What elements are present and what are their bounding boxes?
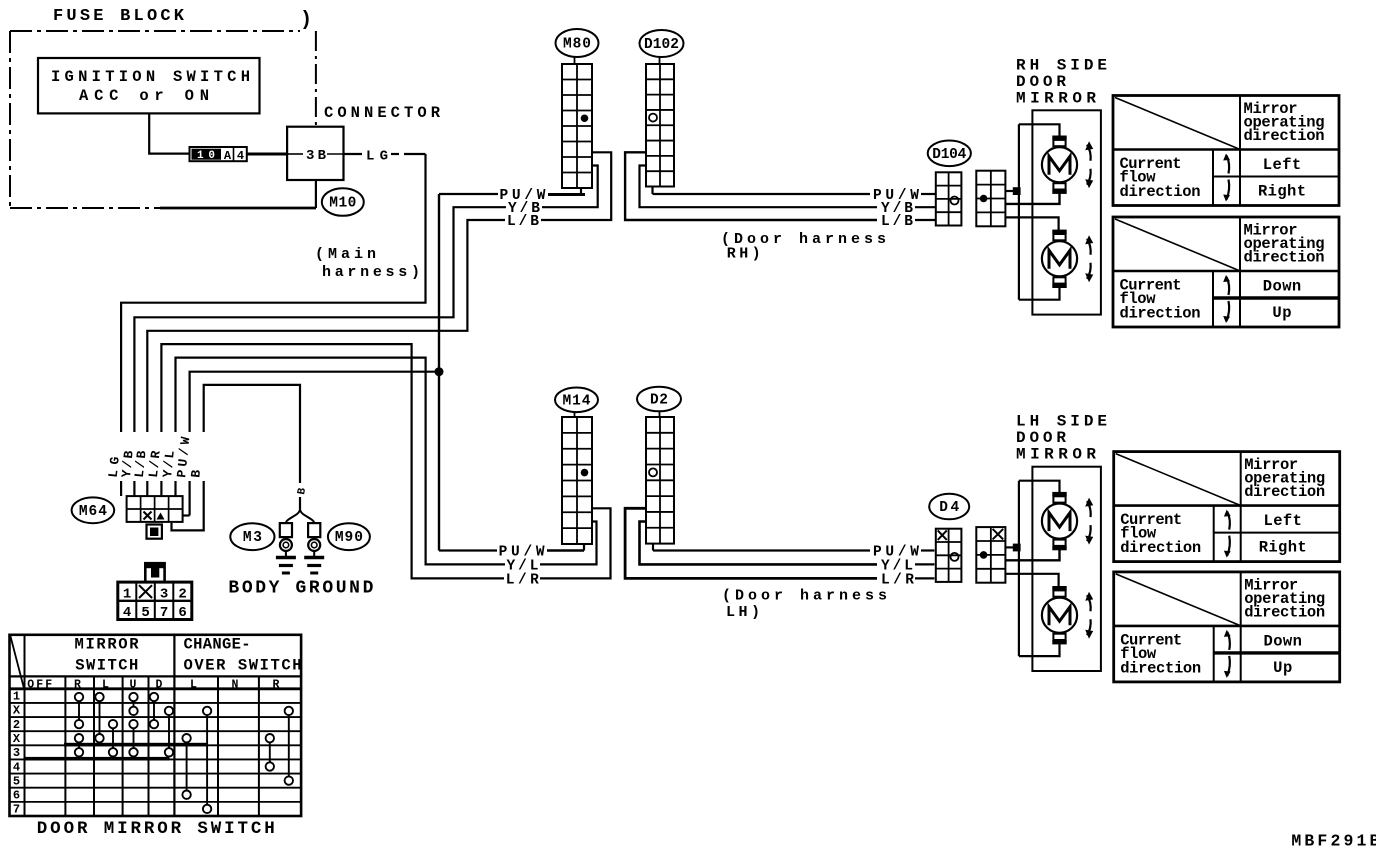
ignition switch box [38, 58, 260, 113]
table LH down-up [1114, 572, 1340, 682]
svg-text:BODY GROUND: BODY GROUND [228, 579, 373, 599]
wire fuse to connector [247, 153, 287, 156]
wire to junction [1005, 546, 1014, 548]
common rail wire [1018, 124, 1020, 299]
mirror assembly box [1032, 467, 1101, 671]
svg-text:LH): LH) [726, 604, 760, 621]
svg-text:M90: M90 [335, 530, 363, 546]
svg-text:CHANGE-: CHANGE- [184, 636, 251, 654]
svg-text:direction: direction [1244, 603, 1325, 621]
motor [1052, 136, 1066, 140]
wire Y/L bundle [176, 358, 506, 565]
svg-text:R: R [273, 679, 280, 692]
svg-text:3: 3 [13, 746, 20, 760]
connector D2 grid [646, 417, 674, 544]
svg-text:5: 5 [141, 605, 149, 621]
svg-text:ACC or ON: ACC or ON [79, 87, 209, 105]
junction node [1013, 544, 1021, 552]
door connector grid 1 [936, 172, 962, 225]
motor [1052, 586, 1066, 590]
door connector grid 2 [976, 527, 1005, 583]
mirror assembly box [1032, 110, 1101, 314]
svg-text:M3: M3 [243, 530, 262, 546]
svg-text:Down: Down [1263, 278, 1301, 296]
fuse block boundary (dash-dot box) [10, 30, 300, 32]
wire to junction [1005, 190, 1014, 192]
svg-text:X: X [13, 732, 21, 746]
connector M14 oval [555, 388, 598, 413]
current flow direction cell [1213, 626, 1215, 682]
wire Y/B D102 to D104 [640, 166, 878, 208]
table row divider [1213, 176, 1339, 178]
svg-text:6: 6 [178, 605, 186, 621]
svg-text:3: 3 [160, 587, 168, 603]
flow arrows [1227, 277, 1230, 295]
wire motor1 bottom to grid2 [1005, 550, 1059, 560]
svg-text:Up: Up [1273, 659, 1292, 677]
table row divider [1214, 651, 1340, 654]
table header rows [10, 675, 302, 677]
current flow direction cell [1213, 506, 1215, 562]
svg-text:U: U [130, 679, 137, 692]
ground bolt [308, 523, 320, 537]
wire ground fork [286, 509, 300, 523]
contact links [78, 701, 80, 720]
svg-text:MBF291B: MBF291B [1291, 832, 1376, 851]
connector M10 oval [322, 188, 364, 216]
junction node [1013, 187, 1021, 195]
svg-text:direction: direction [1244, 249, 1325, 267]
common rail wire [1018, 481, 1020, 656]
connector D102 grid [646, 64, 674, 187]
svg-text:L: L [102, 679, 109, 692]
svg-text:direction: direction [1120, 183, 1201, 201]
wire ignition switch to fuse [149, 113, 189, 153]
wire rail to motor1 top [1019, 124, 1060, 136]
table row divider [1213, 296, 1339, 299]
wire L/R D2 to D4 [625, 508, 877, 578]
wire connector bottom to fuse block edge [315, 180, 317, 208]
svg-text:L/B: L/B [507, 214, 539, 230]
switch pin layout tab [145, 563, 164, 568]
connector M64 grid [127, 496, 183, 522]
wire PU/W D2 to D4 [652, 544, 654, 551]
svg-text:direction: direction [1120, 659, 1201, 677]
svg-text:M14: M14 [563, 393, 591, 409]
connector M14 grid [562, 417, 592, 544]
wire Y/L D2 to D4 [640, 522, 878, 565]
switch pin layout grid [118, 582, 192, 619]
wire motor2 bottom to rail [1019, 644, 1060, 656]
ground symbol [276, 556, 296, 559]
wire rail to motor1 top [1019, 481, 1060, 493]
motor [1052, 492, 1066, 496]
svg-text:D104: D104 [932, 147, 966, 163]
motor [1052, 230, 1066, 234]
wire L/B D102 to D104 [625, 152, 877, 220]
wire Y/B bundle [134, 207, 506, 432]
svg-text:LH SIDE: LH SIDE [1016, 413, 1107, 431]
rotation arrows [1087, 239, 1091, 255]
junction PU/W node [435, 367, 444, 376]
svg-text:OVER SWITCH: OVER SWITCH [184, 657, 302, 675]
svg-text:N: N [232, 679, 239, 692]
connector 3B box [287, 127, 343, 180]
connector D104 oval [928, 141, 971, 167]
connector M80 oval [556, 29, 599, 57]
svg-text:4: 4 [123, 605, 131, 621]
connector M64 oval [72, 497, 115, 523]
thick bars [64, 743, 208, 747]
flow arrows [1227, 632, 1230, 650]
svg-text:4: 4 [13, 760, 20, 774]
svg-text:1: 1 [123, 587, 131, 603]
wire PU/W D102 to D104 [651, 187, 653, 195]
svg-text:Right: Right [1258, 183, 1306, 201]
svg-text:2: 2 [13, 718, 20, 732]
svg-text:7: 7 [160, 605, 168, 621]
svg-text:M64: M64 [79, 504, 107, 520]
door mirror switch table [10, 635, 302, 816]
wire grid2 to motor2 top [1005, 574, 1058, 587]
table RH left-right [1113, 96, 1339, 206]
svg-text:D: D [156, 679, 163, 692]
svg-text:L/B: L/B [881, 214, 913, 230]
svg-text:4: 4 [237, 149, 244, 163]
fuse 10A 4 [190, 147, 247, 161]
current flow direction cell [1212, 271, 1214, 327]
svg-text:Left: Left [1264, 512, 1302, 530]
X marks on connector cells [938, 530, 947, 540]
wire LG from connector [344, 153, 363, 155]
table header diagonal [10, 636, 24, 689]
svg-text:X: X [13, 704, 21, 718]
wire grid2 to motor2 top [1005, 217, 1058, 230]
connector M90 oval [328, 523, 370, 550]
wire motor1 bottom to grid2 [1005, 194, 1059, 204]
svg-text:IGNITION SWITCH: IGNITION SWITCH [51, 68, 250, 86]
svg-text:direction: direction [1120, 539, 1201, 557]
svg-text:direction: direction [1120, 305, 1201, 323]
svg-text:L/R: L/R [881, 572, 914, 588]
svg-text:D102: D102 [644, 37, 679, 53]
svg-text:): ) [300, 9, 312, 32]
wire B to ground [204, 385, 300, 483]
switch contacts [75, 693, 83, 701]
svg-text:direction: direction [1244, 483, 1325, 501]
svg-text:2: 2 [178, 587, 186, 603]
wire L/R bundle [161, 344, 504, 578]
connector M80 grid [562, 64, 592, 188]
connector D2 oval [637, 387, 681, 412]
table LH left-right [1114, 452, 1340, 562]
svg-text:Left: Left [1263, 156, 1301, 174]
svg-text:L/R: L/R [506, 572, 539, 588]
svg-text:R: R [74, 679, 81, 692]
svg-text:CONNECTOR: CONNECTOR [324, 104, 441, 122]
connector M64 lock tab [147, 525, 162, 539]
wire PU/W trunk vertical [438, 194, 440, 551]
table header diagonal [1115, 219, 1239, 271]
door connector grid 2 [976, 171, 1005, 227]
table row divider [1214, 532, 1340, 534]
svg-text:1: 1 [13, 690, 20, 704]
rotation arrows [1087, 501, 1091, 517]
svg-text:A: A [224, 149, 232, 163]
wire PU/W to M80 [439, 193, 498, 195]
svg-text:L: L [190, 679, 197, 692]
svg-text:RH SIDE: RH SIDE [1016, 57, 1107, 75]
svg-text:RH): RH) [727, 246, 761, 263]
rotation arrows [1087, 595, 1091, 611]
svg-text:Up: Up [1272, 304, 1291, 322]
wire PU/W to M14 [439, 549, 497, 551]
svg-text:6: 6 [13, 789, 20, 803]
svg-text:Right: Right [1259, 539, 1307, 557]
table header diagonal [1116, 454, 1240, 506]
table header diagonal [1115, 98, 1239, 150]
svg-text:direction: direction [1244, 127, 1325, 145]
wire L/B bundle [147, 220, 505, 432]
flow arrows [1227, 512, 1230, 530]
ground bolt [280, 523, 292, 537]
rotation arrows [1087, 145, 1091, 161]
svg-text:M80: M80 [563, 37, 591, 53]
svg-text:7: 7 [13, 803, 20, 817]
door connector grid 1 [936, 529, 962, 582]
svg-text:M10: M10 [329, 196, 356, 212]
svg-text:Down: Down [1264, 632, 1302, 650]
table column lines [24, 635, 26, 816]
svg-text:OFF: OFF [27, 679, 52, 692]
svg-text:5: 5 [13, 774, 20, 788]
flow arrows [1227, 156, 1230, 174]
connector M3 oval [230, 523, 274, 550]
table RH down-up [1113, 217, 1339, 327]
table header diagonal [1116, 574, 1240, 626]
wire motor2 bottom to rail [1019, 288, 1060, 300]
connector D4 oval [929, 494, 969, 520]
ground symbol [304, 556, 324, 559]
connector D102 oval [640, 30, 684, 57]
wire PU/W bundle [190, 372, 439, 432]
svg-text:D2: D2 [650, 393, 668, 409]
current flow direction cell [1212, 150, 1214, 206]
